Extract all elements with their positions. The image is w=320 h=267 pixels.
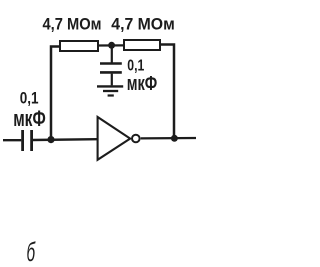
svg-text:4,7 МОм: 4,7 МОм (43, 16, 102, 34)
svg-text:б: б (27, 237, 36, 267)
svg-text:мкФ: мкФ (13, 106, 46, 131)
svg-text:мкФ: мкФ (127, 73, 158, 95)
svg-text:4,7 МОм: 4,7 МОм (111, 15, 175, 33)
svg-text:0,1: 0,1 (20, 89, 39, 108)
